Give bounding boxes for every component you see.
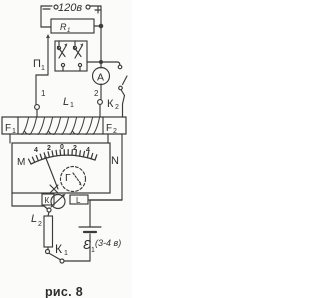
terminal F2 box <box>102 117 104 134</box>
wire K2 elbow down <box>118 62 120 65</box>
commutator contacts bottom <box>61 63 64 66</box>
minus sign <box>43 8 50 10</box>
meter scale arc <box>31 155 95 164</box>
wire lamp circle to L2 <box>48 212 49 216</box>
svg-text:M: M <box>17 157 25 168</box>
terminal under L2 <box>46 250 50 254</box>
commutator lever right with arrow <box>75 45 83 58</box>
battery long plate <box>79 226 101 228</box>
svg-text:1: 1 <box>41 65 45 72</box>
coil L1 box <box>2 117 126 134</box>
wire battery top <box>89 200 91 227</box>
coil L2 rect <box>44 216 53 247</box>
svg-text:1: 1 <box>91 247 95 254</box>
wire ammeter top stub <box>100 62 102 68</box>
svg-text:(3-4 в): (3-4 в) <box>95 238 121 248</box>
svg-text:F: F <box>106 123 112 134</box>
meter scale ticks <box>29 150 97 164</box>
lamp arrow <box>51 195 64 207</box>
wire R1 right to node <box>94 25 101 27</box>
svg-text:Г: Г <box>65 172 71 184</box>
node ammeter top <box>100 61 103 64</box>
label L box <box>70 195 88 204</box>
wire K2 down right side <box>122 91 125 118</box>
coil L1 winding <box>22 118 100 135</box>
terminal F1 box <box>17 117 19 134</box>
wire F2 to meter stub <box>107 134 109 143</box>
wire top horizontal left <box>41 5 52 7</box>
svg-text:1: 1 <box>41 89 46 98</box>
switch K1 contact <box>60 259 64 263</box>
svg-text:1: 1 <box>70 102 74 109</box>
svg-text:120в: 120в <box>58 2 82 14</box>
commutator cross wires <box>58 47 66 57</box>
svg-text:К: К <box>55 242 62 256</box>
resistor R1 <box>51 19 94 33</box>
wire lamp bottom circle <box>47 208 51 212</box>
svg-text:К: К <box>45 196 50 205</box>
label K terminal box <box>42 194 54 205</box>
commutator P1 box <box>55 41 87 71</box>
svg-text:П: П <box>33 58 41 70</box>
knife switch K2 bottom contact <box>119 86 123 90</box>
pivot cross <box>50 185 58 193</box>
knife switch K2 top contact <box>118 65 122 69</box>
svg-text:2: 2 <box>113 128 117 135</box>
plus sign <box>95 7 101 13</box>
lamp circle <box>51 195 65 209</box>
commutator contacts top <box>57 46 60 49</box>
commutator lever left with arrow <box>59 45 67 58</box>
switch K1 lever <box>50 254 61 260</box>
svg-text:N: N <box>111 155 119 167</box>
terminal left of 120v <box>54 5 58 9</box>
svg-text:1: 1 <box>64 250 68 257</box>
wire F1 to meter stub <box>9 134 11 143</box>
svg-text:4: 4 <box>34 147 38 154</box>
wire P1 right to ammeter rail <box>87 61 118 63</box>
wire wiper down-left to terminal 1 <box>36 75 48 104</box>
svg-text:2: 2 <box>38 221 42 228</box>
svg-text:L: L <box>76 196 81 205</box>
svg-text:1: 1 <box>12 128 16 135</box>
galvanometer dashed circle <box>61 167 86 192</box>
terminal 1 circle <box>35 105 40 110</box>
wiper arrow into R1 <box>47 36 49 75</box>
wire right side down to lamp row <box>90 134 122 200</box>
commutator top stubs <box>58 41 60 46</box>
dashed arrow inside <box>73 173 81 184</box>
svg-text:К: К <box>107 98 114 110</box>
wire right vertical from plus <box>100 6 102 62</box>
svg-text:0: 0 <box>60 144 64 151</box>
svg-text:Ɛ: Ɛ <box>83 237 91 252</box>
battery short plate <box>84 231 96 233</box>
wire terminal 2 stem <box>99 105 101 118</box>
terminal right of 120v <box>86 5 90 9</box>
commutator bottom stubs <box>62 67 64 71</box>
galvanometer meter box <box>12 143 110 193</box>
node junction R1 right <box>99 24 102 27</box>
svg-text:F: F <box>5 123 11 134</box>
svg-text:2: 2 <box>73 145 77 152</box>
svg-text:4: 4 <box>86 147 90 154</box>
wire meter bottom left <box>12 193 44 206</box>
svg-text:2: 2 <box>94 89 99 98</box>
knife switch K2 blade <box>123 76 128 85</box>
needle <box>46 157 59 189</box>
wire top horizontal right <box>90 5 101 7</box>
wire ammeter bottom stub <box>100 84 102 99</box>
svg-text:R: R <box>60 22 67 32</box>
wire left vertical to R1 <box>41 6 51 27</box>
svg-text:A: A <box>97 72 104 84</box>
svg-text:рис. 8: рис. 8 <box>45 285 83 298</box>
svg-text:2: 2 <box>47 145 51 152</box>
svg-text:2: 2 <box>115 104 119 111</box>
ammeter A <box>93 68 110 85</box>
wire K1 to battery bottom <box>64 234 90 261</box>
svg-text:1: 1 <box>67 28 70 34</box>
wire L box to right rail <box>88 199 122 201</box>
svg-text:L: L <box>63 96 69 108</box>
svg-text:L: L <box>31 213 37 225</box>
terminal 2 circle <box>98 100 103 105</box>
wire terminal 1 stem <box>36 110 38 117</box>
